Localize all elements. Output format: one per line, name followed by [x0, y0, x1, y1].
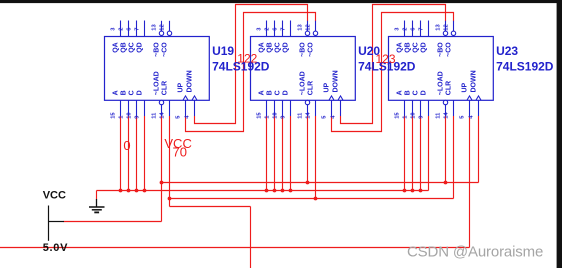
- junction CLR bus at U20 pin14: [314, 197, 318, 201]
- U23 pin 10 C input stub: [420, 100, 422, 116]
- U20 pin 10 C input stub: [282, 100, 284, 116]
- svg-text:QA: QA: [259, 42, 266, 53]
- svg-text:U19: U19: [212, 44, 234, 58]
- junction ground bus at U20 C: [281, 189, 285, 193]
- svg-text:DOWN: DOWN: [333, 70, 340, 92]
- IC U19 74LS192D body: [105, 37, 210, 101]
- wire U20 B input to ground bus: [274, 116, 276, 191]
- U19 pin 12 ~CO stub with bubble: [169, 21, 171, 31]
- svg-text:12: 12: [305, 24, 311, 30]
- wire U23 A input to ground bus: [404, 116, 406, 191]
- svg-text:10: 10: [410, 112, 416, 118]
- wire U19 B input to ground bus: [128, 116, 130, 191]
- svg-text:74LS192D: 74LS192D: [496, 59, 554, 73]
- junction VCC bus at U20 pin11: [306, 181, 310, 185]
- svg-text:B: B: [121, 90, 128, 95]
- U23 pin 3 QA output stub: [404, 21, 406, 37]
- wire VCC horizontal bus y=182: [162, 182, 479, 184]
- svg-text:QB: QB: [405, 42, 412, 53]
- U19 pin 11 ~LOAD stub with bubble: [159, 100, 163, 104]
- wire CLR horizontal bus y=198.2: [170, 198, 454, 200]
- U19 pin 1 B input stub: [128, 100, 130, 116]
- U20 pin 4 DOWN clock stub: [338, 96, 343, 100]
- U20 pin 11 ~LOAD stub with bubble: [305, 100, 309, 104]
- svg-text:~BO: ~BO: [300, 42, 307, 57]
- U19 pin 13 ~BO stub with bubble: [161, 21, 163, 31]
- wire U19 pin14 CLR down: [169, 116, 171, 207]
- svg-text:9: 9: [280, 115, 286, 119]
- svg-text:~CO: ~CO: [308, 42, 315, 57]
- junction ground bus at U19 C: [135, 189, 139, 193]
- wire U19 C input to ground bus: [136, 116, 138, 191]
- wire ground bus to ground symbol: [96, 191, 98, 200]
- wire U19 A input to ground bus: [120, 116, 122, 191]
- U20 pin 13 ~BO stub with bubble: [307, 21, 309, 31]
- wire U23 C input to ground bus: [420, 116, 422, 191]
- svg-text:QD: QD: [137, 42, 144, 53]
- svg-text:1: 1: [402, 115, 408, 119]
- U20 pin 7 QD output stub: [290, 21, 292, 37]
- U19 pin 10 C input stub: [136, 100, 138, 116]
- svg-text:5: 5: [175, 115, 181, 119]
- junction ground bus at U20 D: [289, 189, 293, 193]
- svg-text:15: 15: [256, 112, 262, 119]
- svg-text:9: 9: [134, 115, 140, 119]
- svg-text:~LOAD: ~LOAD: [438, 71, 445, 95]
- U19 pin 6 QC output stub: [136, 21, 138, 37]
- svg-text:UP: UP: [462, 82, 469, 92]
- svg-text:DOWN: DOWN: [187, 70, 194, 92]
- svg-text:~CO: ~CO: [446, 42, 453, 57]
- svg-text:5.0V: 5.0V: [43, 242, 68, 254]
- svg-text:~LOAD: ~LOAD: [300, 71, 307, 95]
- U20 pin 9 D input stub: [290, 100, 292, 116]
- U19 pin 15 A input stub: [120, 100, 122, 116]
- U20 pin 3 QA output stub: [266, 21, 268, 37]
- svg-text:70: 70: [173, 145, 187, 160]
- svg-text:12: 12: [159, 24, 165, 30]
- svg-text:7: 7: [280, 27, 286, 30]
- U20 pin 1 B input stub: [274, 100, 276, 116]
- svg-text:VCC: VCC: [43, 189, 66, 201]
- wire U19 D input to ground bus: [144, 116, 146, 191]
- U20 pin 12 ~CO stub with bubble: [315, 21, 317, 31]
- junction ground bus at U19 B: [127, 189, 131, 193]
- U23 pin 12 ~CO stub with bubble: [453, 21, 455, 31]
- U23 pin 4 DOWN clock stub: [476, 96, 481, 100]
- svg-text:A: A: [113, 90, 120, 95]
- svg-text:~BO: ~BO: [438, 42, 445, 57]
- IC U20 74LS192D body: [251, 37, 356, 101]
- svg-text:~LOAD: ~LOAD: [154, 71, 161, 95]
- svg-text:14: 14: [159, 112, 165, 119]
- svg-text:QD: QD: [283, 42, 290, 53]
- svg-text:14: 14: [443, 112, 449, 119]
- svg-text:10: 10: [126, 112, 132, 118]
- svg-text:~CO: ~CO: [162, 42, 169, 57]
- svg-text:QC: QC: [129, 42, 136, 53]
- U23 pin 14 CLR stub: [453, 100, 455, 116]
- svg-text:0: 0: [123, 138, 130, 153]
- U19 pin 5 UP clock stub: [183, 96, 188, 100]
- svg-text:D: D: [421, 90, 428, 95]
- svg-text:15: 15: [394, 112, 400, 119]
- junction ground bus at U19 D: [143, 189, 147, 193]
- svg-text:3: 3: [256, 27, 262, 31]
- U20 pin 2 QB output stub: [274, 21, 276, 37]
- U20 pin 15 A input stub: [266, 100, 268, 116]
- U20 pin 5 UP clock stub: [329, 96, 334, 100]
- svg-text:UP: UP: [324, 82, 331, 92]
- U19 pin 9 D input stub: [144, 100, 146, 116]
- svg-text:CSDN @Auroraisme: CSDN @Auroraisme: [407, 244, 543, 261]
- svg-text:D: D: [137, 90, 144, 95]
- junction ground bus at U23 A: [403, 189, 407, 193]
- svg-text:QC: QC: [413, 42, 420, 53]
- wire U20 pin14 to CLR bus: [315, 116, 317, 199]
- svg-text:5: 5: [321, 115, 327, 119]
- U23 pin 1 B input stub: [412, 100, 414, 116]
- svg-text:15: 15: [110, 112, 116, 119]
- svg-text:13: 13: [435, 23, 441, 30]
- svg-text:122: 122: [237, 51, 257, 65]
- svg-text:12: 12: [443, 24, 449, 30]
- wire net 123 U23 ~BO to U20 DOWN: [341, 5, 446, 124]
- svg-text:3: 3: [110, 27, 116, 31]
- U23 pin 2 QB output stub: [412, 21, 414, 37]
- svg-text:U23: U23: [496, 44, 518, 58]
- junction ground bus at U19 A: [119, 189, 123, 193]
- svg-text:10: 10: [272, 112, 278, 118]
- U23 pin 15 A input stub: [404, 100, 406, 116]
- svg-text:C: C: [413, 90, 420, 95]
- svg-text:A: A: [259, 90, 266, 95]
- svg-text:QC: QC: [275, 42, 282, 53]
- U19 pin 3 QA output stub: [120, 21, 122, 37]
- svg-text:13: 13: [151, 23, 157, 30]
- U19 pin 4 DOWN clock stub: [192, 96, 197, 100]
- svg-text:6: 6: [126, 27, 132, 31]
- junction VCC bus at U23 pin11: [444, 181, 448, 185]
- wire ground bus y=190.5: [97, 190, 429, 192]
- wire VCC riser up to U19 ~LOAD: [161, 183, 163, 222]
- junction ground bus at U23 B: [411, 189, 415, 193]
- svg-text:C: C: [275, 90, 282, 95]
- wire clock riser to U23 pin5 UP: [469, 116, 471, 248]
- ground symbol: [96, 199, 98, 207]
- svg-text:6: 6: [410, 27, 416, 31]
- wire net 123 U23 ~CO to U20 UP: [332, 13, 454, 132]
- svg-text:13: 13: [297, 23, 303, 30]
- svg-text:A: A: [397, 90, 404, 95]
- svg-text:6: 6: [272, 27, 278, 31]
- svg-text:CLR: CLR: [308, 81, 315, 95]
- svg-text:123: 123: [376, 52, 396, 66]
- svg-text:3: 3: [394, 27, 400, 31]
- wire CLR lower horizontal y=206.7: [170, 206, 251, 208]
- junction ground bus at U20 B: [273, 189, 277, 193]
- U19 pin 2 QB output stub: [128, 21, 130, 37]
- svg-text:QA: QA: [113, 42, 120, 53]
- junction VCC bus at U19 pin11: [160, 181, 164, 185]
- svg-text:UP: UP: [178, 82, 185, 92]
- U23 pin 6 QC output stub: [420, 21, 422, 37]
- svg-text:14: 14: [305, 112, 311, 119]
- wire U20 pin11 to VCC bus: [307, 116, 309, 183]
- junction ground bus at U23 C: [419, 189, 423, 193]
- wire U23 pin14 to CLR bus: [453, 116, 455, 199]
- U19 pin 7 QD output stub: [144, 21, 146, 37]
- U23 pin 9 D input stub: [428, 100, 430, 116]
- svg-text:CLR: CLR: [162, 81, 169, 95]
- svg-text:QB: QB: [121, 42, 128, 53]
- svg-text:11: 11: [151, 112, 157, 119]
- svg-text:B: B: [267, 90, 274, 95]
- wire net 122 U20 ~BO to U19 DOWN: [195, 5, 308, 124]
- svg-text:1: 1: [118, 115, 124, 119]
- wire U20 D input to ground bus: [290, 116, 292, 191]
- svg-text:B: B: [405, 90, 412, 95]
- U23 pin 11 ~LOAD stub with bubble: [443, 100, 447, 104]
- wire U23 pin11 to VCC bus: [445, 116, 447, 183]
- IC U23 74LS192D body: [389, 37, 494, 101]
- svg-text:C: C: [129, 90, 136, 95]
- U19 pin 14 CLR stub: [169, 100, 171, 116]
- svg-text:1: 1: [264, 115, 270, 119]
- wire U23 D input to ground bus: [428, 116, 430, 191]
- svg-text:11: 11: [297, 112, 303, 119]
- junction ground bus at U20 A: [265, 189, 269, 193]
- junction CLR bus at U19 pin14: [168, 197, 172, 201]
- U23 pin 7 QD output stub: [428, 21, 430, 37]
- svg-text:D: D: [283, 90, 290, 95]
- svg-text:~BO: ~BO: [154, 42, 161, 57]
- svg-text:7: 7: [418, 27, 424, 30]
- wire U20 A input to ground bus: [266, 116, 268, 191]
- svg-text:QD: QD: [421, 42, 428, 53]
- U20 pin 6 QC output stub: [282, 21, 284, 37]
- wire VCC source to riser: [64, 221, 162, 223]
- wire U20 C input to ground bus: [282, 116, 284, 191]
- svg-text:DOWN: DOWN: [471, 70, 478, 92]
- U20 pin 14 CLR stub: [315, 100, 317, 116]
- wire U23 B input to ground bus: [412, 116, 414, 191]
- U23 pin 5 UP clock stub: [467, 96, 472, 100]
- wire CLR drop to bottom edge: [250, 207, 252, 268]
- svg-text:2: 2: [118, 27, 124, 30]
- svg-text:11: 11: [435, 112, 441, 119]
- svg-text:QB: QB: [267, 42, 274, 53]
- wire clock bottom horizontal y=247.3: [0, 247, 470, 249]
- svg-text:7: 7: [134, 27, 140, 30]
- svg-text:CLR: CLR: [446, 81, 453, 95]
- svg-text:2: 2: [402, 27, 408, 30]
- svg-text:5: 5: [459, 115, 465, 119]
- svg-text:9: 9: [418, 115, 424, 119]
- U23 pin 13 ~BO stub with bubble: [445, 21, 447, 31]
- wire U19 pin11 to VCC bus: [161, 116, 163, 183]
- svg-text:QA: QA: [397, 42, 404, 53]
- wire U23 pin4 DOWN to VCC bus: [478, 116, 480, 183]
- wire net 122 U20 ~CO to U19 UP: [186, 13, 316, 132]
- svg-text:2: 2: [264, 27, 270, 30]
